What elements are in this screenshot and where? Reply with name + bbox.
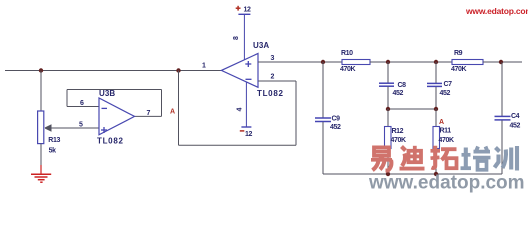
capacitor C4 branch: top wire [501,62,503,116]
svg-text:3: 3 [271,55,275,62]
label +12: plus sign [236,6,241,11]
svg-text:R11: R11 [440,128,452,135]
node dot C8 top [386,60,390,64]
ground symbol bars [31,174,51,182]
wire U3B feedback rect top edge [67,89,162,91]
svg-text:452: 452 [330,124,341,131]
node dot C7 top [434,60,438,64]
wire pot to main net [40,71,42,112]
resistor R9 body [452,60,483,65]
node dot R12 bottom [386,172,390,176]
node junction dot left (pot tap) [39,68,43,72]
wire top rail pin3 to R10 [258,61,342,63]
svg-text:U3A: U3A [253,41,269,50]
svg-text:470K: 470K [451,66,466,73]
svg-text:7: 7 [147,110,151,117]
watermark char di [400,146,425,169]
svg-text:470K: 470K [340,66,355,73]
svg-text:470K: 470K [439,137,454,144]
capacitor C4 bottom wire [501,120,503,174]
svg-text:www.edatop.com: www.edatop.com [465,6,528,16]
node junction dot at U3A feedback [176,68,180,72]
watermark char xun [495,146,518,171]
svg-text:5k: 5k [49,148,56,155]
svg-text:470K: 470K [391,137,406,144]
svg-text:TL082: TL082 [257,89,284,98]
resistor R12 body [385,127,392,149]
op-amp U3B minus input mark [102,107,108,109]
svg-text:www.edatop.com: www.edatop.com [368,173,525,194]
watermark char pei [461,147,491,170]
wire top rail right of R9 [483,61,522,63]
wire U3B feedback rect right edge [161,90,163,117]
resistor R13 potentiometer body [38,111,44,144]
op-amp U3A plus input mark [245,61,251,67]
node dot C4 top [499,60,503,64]
wire R11 top [435,109,437,127]
node dot middle rail left [386,107,390,111]
power -12 supply bar [241,126,251,128]
svg-text:TL082: TL082 [97,137,124,146]
capacitor C7 plates [427,83,442,86]
wire top rail R10 to R9 [370,61,452,63]
svg-text:12: 12 [244,7,251,14]
watermark char tuo [431,146,457,168]
wire U3A feedback right edge [295,81,297,145]
resistor R11 body [433,127,440,149]
capacitor C9 bottom wire [322,122,324,174]
node dot C9 top [321,60,325,64]
svg-text:6: 6 [80,100,84,107]
svg-text:12: 12 [245,131,252,138]
svg-text:R13: R13 [48,137,60,144]
resistor R13 wiper arrow [45,125,52,131]
svg-text:R10: R10 [341,50,353,57]
wire U3A pin2 stub [258,80,296,82]
wire bottom rail [323,173,502,175]
svg-text:C8: C8 [398,82,407,89]
svg-text:R12: R12 [392,128,404,135]
svg-text:2: 2 [271,73,275,80]
wire U3A pin8 to +12 [243,14,245,60]
svg-text:8: 8 [233,36,240,40]
watermark char yi [371,147,392,170]
capacitor C7 branch: top wire [435,62,437,83]
wire main input net at y70 [5,70,222,72]
wire middle rail C8/C7 bottoms [388,108,436,110]
svg-text:R9: R9 [454,50,463,57]
label -12: minus sign [240,130,245,132]
svg-text:U3B: U3B [99,89,115,98]
svg-text:A: A [170,109,175,116]
wire R11 bottom [435,149,437,175]
capacitor C8 plates [379,83,394,86]
svg-text:5: 5 [79,122,83,129]
power +12 supply bar [238,13,250,15]
wire R12 top [387,109,389,127]
capacitor C9 branch: top wire [322,62,324,118]
op-amp U3B plus input mark [101,127,107,133]
capacitor C8 bottom wire [387,87,389,109]
capacitor C4 plates [495,116,511,120]
ground symbol stem [40,165,42,174]
wire U3A feedback bottom edge [179,144,297,146]
svg-text:452: 452 [510,123,521,130]
svg-text:C4: C4 [511,113,520,120]
op-amp U3A triangle (mirrored, output left) [221,54,258,88]
wire U3B pin6 [67,106,99,108]
svg-text:4: 4 [237,108,244,112]
svg-text:452: 452 [393,90,404,97]
node dot R11 bottom [434,172,438,176]
op-amp U3A minus input mark [246,78,252,80]
wire pot bottom to ground [40,144,42,165]
wire U3B feedback rect left edge [66,90,68,107]
svg-text:1: 1 [202,63,206,70]
wire U3A feedback left edge to main net [178,71,180,146]
op-amp U3B triangle [99,98,135,135]
svg-text:C9: C9 [332,116,341,123]
resistor R10 body [342,60,370,65]
node dot middle rail right [434,107,438,111]
svg-text:A: A [439,119,444,126]
wire R12 bottom [387,149,389,175]
capacitor C8 branch: top wire [387,62,389,83]
capacitor C9 plates [315,118,331,122]
wire U3B output pin7 [135,115,162,117]
wire wiper to U3B pin5 [45,127,99,129]
capacitor C7 bottom wire [435,87,437,109]
svg-text:452: 452 [440,90,451,97]
wire U3A pin4 to -12 [245,82,247,127]
svg-text:C7: C7 [444,81,453,88]
